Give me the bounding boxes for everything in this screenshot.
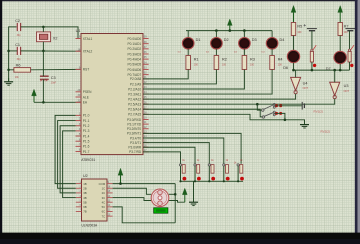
svg-text:P1.2: P1.2 xyxy=(83,124,90,128)
pin P2.3/A11 (24) xyxy=(143,93,149,95)
wire switch1 feed xyxy=(257,104,261,110)
node X2 bottom xyxy=(42,50,45,53)
svg-text:C1: C1 xyxy=(15,43,20,47)
photodiode D7 xyxy=(334,51,346,63)
button B3 xyxy=(208,164,215,182)
svg-text:100: 100 xyxy=(194,64,199,67)
potentiometer RV2 xyxy=(348,51,351,62)
pin 3B xyxy=(76,192,82,194)
svg-text:P0.4/AD4: P0.4/AD4 xyxy=(128,57,142,61)
pin 4C xyxy=(107,201,113,203)
svg-text:NOT: NOT xyxy=(303,86,309,90)
resistor R5 xyxy=(291,23,295,36)
svg-text:100: 100 xyxy=(250,64,255,67)
switch SW1 xyxy=(262,103,283,111)
wire RV2 to rail xyxy=(349,62,351,70)
svg-text:2C: 2C xyxy=(102,191,106,195)
svg-text:P3.7/RD: P3.7/RD xyxy=(129,150,142,154)
pin 1C xyxy=(107,187,113,189)
wire D1 to R1 xyxy=(187,49,189,55)
svg-text:100: 100 xyxy=(278,64,283,67)
button B5 xyxy=(237,164,244,182)
svg-text:P0.3/AD3: P0.3/AD3 xyxy=(128,52,142,56)
svg-text:P2.2/A10: P2.2/A10 xyxy=(128,87,141,91)
svg-text:P3.5/T1: P3.5/T1 xyxy=(130,141,141,145)
svg-text:C2: C2 xyxy=(15,19,20,23)
wire switch2 feed xyxy=(143,109,262,117)
wire X2 stems xyxy=(42,27,44,32)
pin P2.0/A8 (21) xyxy=(143,78,149,80)
svg-text:6C: 6C xyxy=(102,210,106,214)
wire C2 to crystal node xyxy=(21,26,44,28)
wire LED anode rail xyxy=(186,30,272,32)
svg-text:P0.6/AD6: P0.6/AD6 xyxy=(128,68,142,72)
pin P1.2 (3) xyxy=(76,125,82,127)
wire RV1 to rail xyxy=(311,62,313,70)
power +5V (COM) xyxy=(118,168,123,183)
pin P2.7/A15 (28) xyxy=(143,113,149,115)
svg-text:U2: U2 xyxy=(83,174,88,178)
svg-text:2B: 2B xyxy=(83,186,87,190)
pin 7B xyxy=(76,211,82,213)
svg-text:RST: RST xyxy=(83,68,89,72)
pin 5C xyxy=(107,206,113,208)
wire R2 to P2.1 xyxy=(143,70,216,84)
pin P0.6/AD6 (33) xyxy=(143,68,149,70)
svg-text:ULN2003A: ULN2003A xyxy=(82,223,98,227)
svg-text:30p: 30p xyxy=(17,34,22,37)
motor readout xyxy=(154,208,168,213)
svg-text:D3: D3 xyxy=(252,38,257,42)
pin P3.3/INT1 (13) xyxy=(143,132,149,134)
wire COM rail xyxy=(113,183,176,185)
pin P0.4/AD4 (35) xyxy=(143,58,149,60)
svg-text:R5: R5 xyxy=(297,24,302,28)
svg-text:P2.3/A11: P2.3/A11 xyxy=(128,92,141,96)
wire LED D1 stem xyxy=(187,31,189,38)
svg-text:D7: D7 xyxy=(326,67,331,71)
battery symbol (RV1 top) xyxy=(304,24,317,31)
svg-text:R3: R3 xyxy=(250,57,255,61)
svg-text:P1.7: P1.7 xyxy=(83,150,90,154)
wire top rail to XTAL1 xyxy=(43,27,81,39)
wire D6 to rail xyxy=(293,63,295,70)
capacitor C2 xyxy=(17,23,22,31)
svg-text:3B: 3B xyxy=(83,191,87,195)
pin P1.1 (2) xyxy=(76,120,82,122)
wire R1 to P2.0 xyxy=(143,70,188,79)
wire button feed xyxy=(143,147,195,164)
node RV2 terminal xyxy=(348,49,350,51)
svg-text:4B: 4B xyxy=(83,196,87,200)
svg-text:D6: D6 xyxy=(283,66,288,70)
svg-text:10uF: 10uF xyxy=(51,82,57,84)
wire LED D4 stem xyxy=(271,31,273,38)
potentiometer RV1 xyxy=(310,51,313,62)
svg-text:P1.4: P1.4 xyxy=(83,134,90,138)
LED D2 xyxy=(211,38,223,50)
pin XTAL1 (19) xyxy=(76,38,82,40)
wire D3 to R3 xyxy=(243,49,245,55)
svg-text:P3.1/TXD: P3.1/TXD xyxy=(127,122,142,126)
node EA junction xyxy=(42,101,45,104)
driver U2 xyxy=(76,174,113,227)
wire R7 to D7 xyxy=(339,36,341,52)
node C1-left junction xyxy=(7,50,10,53)
pin P3.2/INT0 (12) xyxy=(143,128,149,130)
pin 6C xyxy=(107,211,113,213)
pin P2.4/A12 (25) xyxy=(143,98,149,100)
button B4 xyxy=(223,164,230,182)
pin 2B xyxy=(76,187,82,189)
svg-text:C3: C3 xyxy=(51,76,56,80)
wire C3 bottom to EA node xyxy=(42,79,44,102)
pin P0.7/AD7 (32) xyxy=(143,74,149,76)
svg-text:P1.5: P1.5 xyxy=(83,140,90,144)
svg-text:X2: X2 xyxy=(53,37,58,41)
wire sensor rail xyxy=(294,69,350,71)
pin P1.6 (7) xyxy=(76,145,82,147)
svg-text:30p: 30p xyxy=(17,58,22,61)
pin XTAL2 (18) xyxy=(76,50,82,52)
pin P2.6/A14 (27) xyxy=(143,108,149,110)
node SW2-gnd junction xyxy=(284,119,287,122)
wire P1.1 to 2B xyxy=(58,121,76,189)
motor M1 xyxy=(151,189,169,207)
battery symbol (RV2 top) xyxy=(345,29,355,31)
svg-text:7C: 7C xyxy=(102,214,106,218)
pin P0.0/AD0 (39) xyxy=(143,38,149,40)
svg-text:PSEN: PSEN xyxy=(83,90,92,94)
wire R5 to D6 xyxy=(293,36,295,51)
LED D1 xyxy=(182,38,194,50)
resistor R3 xyxy=(242,56,247,70)
wire X2 bottom to C3 xyxy=(42,51,44,75)
pin P3.6/WR (16) xyxy=(143,146,149,148)
svg-text:P1.0: P1.0 xyxy=(83,114,90,118)
pin COM xyxy=(107,183,113,185)
pin P3.4/T0 (14) xyxy=(143,137,149,139)
wire button feed xyxy=(143,133,241,163)
wire R4 to P2.3 xyxy=(143,70,272,95)
pin P2.2/A10 (23) xyxy=(143,88,149,90)
wire button common rail xyxy=(181,180,244,182)
svg-text:AT89C51: AT89C51 xyxy=(81,158,95,162)
button B1 xyxy=(179,164,186,182)
wire motor right top xyxy=(169,193,175,195)
node RV1 terminal xyxy=(311,49,313,51)
pin P1.0 (1) xyxy=(76,114,82,116)
crystal X2 xyxy=(37,32,51,42)
pin P1.4 (5) xyxy=(76,135,82,137)
node X2 top xyxy=(42,26,45,29)
ground (switch node) xyxy=(300,120,309,128)
node switch1 tap xyxy=(256,103,259,106)
RV1 adjust dot xyxy=(313,64,316,67)
svg-text:COM: COM xyxy=(99,182,106,186)
pin P3.5/T1 (15) xyxy=(143,142,149,144)
wire U3 input xyxy=(334,70,336,82)
microcontroller U1 AT89C51 xyxy=(76,29,149,162)
pin 1B xyxy=(76,183,82,185)
wire U3 output to P2.5 xyxy=(143,99,335,105)
pin EA (31) xyxy=(76,101,82,103)
wire button feed xyxy=(143,138,224,164)
svg-text:D2: D2 xyxy=(224,38,229,42)
wire D2 to R2 xyxy=(215,49,217,55)
svg-text:U4: U4 xyxy=(303,81,308,85)
pin 2C xyxy=(107,192,113,194)
pin 7C xyxy=(107,215,113,217)
svg-text:100: 100 xyxy=(297,31,302,34)
node R6-left junction xyxy=(7,69,10,72)
svg-text:100: 100 xyxy=(222,64,227,67)
pin P3.0/RXD (10) xyxy=(143,119,149,121)
svg-text:ALE: ALE xyxy=(83,95,89,99)
pin 4B xyxy=(76,197,82,199)
svg-text:4C: 4C xyxy=(102,200,106,204)
pin P0.2/AD2 (37) xyxy=(143,48,149,50)
svg-text:1C: 1C xyxy=(102,186,106,190)
resistor R6 xyxy=(14,68,31,73)
power +5V (LED rail) xyxy=(227,19,232,31)
svg-text:P0.5/AD5: P0.5/AD5 xyxy=(128,63,142,67)
wire button feed xyxy=(143,143,209,164)
svg-text:P3.3/INT1: P3.3/INT1 xyxy=(127,132,142,136)
svg-text:P2.0/A8: P2.0/A8 xyxy=(130,77,142,81)
svg-text:P1.6: P1.6 xyxy=(83,145,90,149)
wire P1.3 to 4B xyxy=(63,131,76,198)
wire battery to RV1 xyxy=(311,31,313,50)
power +5V (R5) xyxy=(291,6,296,23)
svg-text:U3: U3 xyxy=(344,84,349,88)
resistor R4 xyxy=(270,56,275,70)
svg-text:6B: 6B xyxy=(83,205,87,209)
ground (left rail) xyxy=(4,78,13,85)
svg-text:P2.7/A15: P2.7/A15 xyxy=(128,113,141,117)
wire XTAL2 rail xyxy=(21,50,81,52)
border frame xyxy=(0,0,360,1)
wire U4 output to P2.4 xyxy=(143,94,296,99)
pin PSEN (29) xyxy=(76,91,82,93)
pin P1.5 (6) xyxy=(76,140,82,142)
pin ALE (30) xyxy=(76,96,82,98)
pin 3C xyxy=(107,197,113,199)
wire P2.7 to ground xyxy=(143,114,305,123)
svg-text:P0.0/AD0: P0.0/AD0 xyxy=(128,37,142,41)
svg-text:NOT: NOT xyxy=(344,89,350,93)
photodiode D6 xyxy=(287,50,299,62)
svg-text:XTAL1: XTAL1 xyxy=(83,37,93,41)
wire D7 to rail xyxy=(339,64,341,70)
wire 3C to motor xyxy=(113,198,152,201)
pin 6B xyxy=(76,206,82,208)
svg-text:P3.4/T0: P3.4/T0 xyxy=(130,136,141,140)
power +5V (EA) xyxy=(32,89,37,102)
power +5V (R7) xyxy=(338,6,343,23)
not-gate U3 xyxy=(330,82,340,98)
button B2 xyxy=(194,164,201,182)
svg-text:R4: R4 xyxy=(278,57,283,61)
power +5V (motor) xyxy=(182,188,187,202)
switch SW2 xyxy=(262,111,282,118)
svg-text:P0.2/AD2: P0.2/AD2 xyxy=(128,47,142,51)
wire motor right vertical xyxy=(174,184,176,223)
pin P1.3 (4) xyxy=(76,130,82,132)
svg-text:P2.6/A14: P2.6/A14 xyxy=(128,108,141,112)
svg-text:R7: R7 xyxy=(344,24,349,28)
wire left rail top node xyxy=(9,27,18,82)
pin P0.5/AD5 (34) xyxy=(143,63,149,65)
svg-text:D4: D4 xyxy=(280,38,285,42)
wire C1 left xyxy=(9,50,18,52)
wire 1C to motor xyxy=(113,188,152,194)
svg-text:P0.1/AD1: P0.1/AD1 xyxy=(128,42,142,46)
resistor R7 xyxy=(338,23,342,36)
svg-text:1B: 1B xyxy=(83,182,87,186)
capacitor C1 xyxy=(17,47,22,55)
resistor R2 xyxy=(214,56,219,70)
node rail junctions xyxy=(215,29,218,32)
svg-text:P3.6/WR: P3.6/WR xyxy=(128,146,141,150)
RV2 adjust dot xyxy=(350,64,353,67)
svg-text:RV2(2): RV2(2) xyxy=(321,130,330,134)
svg-text:P1.1: P1.1 xyxy=(83,119,90,123)
svg-text:P2.5/A13: P2.5/A13 xyxy=(128,103,141,107)
wire battery to RV2 xyxy=(349,31,351,50)
svg-text:R2: R2 xyxy=(222,57,227,61)
pin P0.1/AD1 (38) xyxy=(143,43,149,45)
wire motor right bottom xyxy=(169,201,185,203)
svg-text:5B: 5B xyxy=(83,200,87,204)
svg-text:P2.4/A12: P2.4/A12 xyxy=(128,97,141,101)
pin P0.3/AD3 (36) xyxy=(143,53,149,55)
LED D3 xyxy=(239,38,251,50)
svg-text:P3.0/RXD: P3.0/RXD xyxy=(127,118,142,122)
wire LED D2 stem xyxy=(215,31,217,38)
pin P2.1/A9 (22) xyxy=(143,83,149,85)
not-gate U4 xyxy=(291,77,301,93)
wire U4 input xyxy=(295,70,297,77)
wire LED D3 stem xyxy=(243,31,245,38)
svg-text:P3.2/INT0: P3.2/INT0 xyxy=(127,127,142,131)
svg-text:7B: 7B xyxy=(83,210,87,214)
svg-text:R1: R1 xyxy=(194,57,199,61)
LED D4 xyxy=(266,38,278,50)
wire button feed xyxy=(143,152,181,164)
wire D4 to R4 xyxy=(271,49,273,55)
wire P1.2 to 3B xyxy=(60,126,76,193)
svg-text:R6: R6 xyxy=(16,63,21,67)
svg-text:D1: D1 xyxy=(196,38,201,42)
svg-text:3C: 3C xyxy=(102,196,106,200)
wire P1.0 to 1B xyxy=(55,115,76,183)
capacitor C3 xyxy=(40,75,49,81)
wire EA rail xyxy=(34,101,81,103)
pin 5B xyxy=(76,201,82,203)
resistor R1 xyxy=(186,56,191,70)
pin P3.7/RD (17) xyxy=(143,151,149,153)
node COM junction xyxy=(119,182,122,185)
svg-text:XTAL2: XTAL2 xyxy=(83,50,93,54)
svg-text:U1: U1 xyxy=(76,29,81,33)
wire SW2 common xyxy=(275,113,285,119)
ground (button rail) xyxy=(189,181,198,205)
pin P2.5/A13 (26) xyxy=(143,103,149,105)
wire R3 to P2.2 xyxy=(143,70,244,90)
svg-text:P2.1/A9: P2.1/A9 xyxy=(130,82,142,86)
wire bottom loop to 5C xyxy=(113,207,176,223)
wire SW1 common xyxy=(275,105,302,107)
wire R6 to RST xyxy=(31,68,81,70)
pin P3.1/TXD (11) xyxy=(143,123,149,125)
battery symbol (switch node) xyxy=(302,102,304,110)
pin RST (9) xyxy=(76,68,82,70)
wire R6 left xyxy=(9,69,14,71)
pin P1.7 (8) xyxy=(76,151,82,153)
svg-text:P1.3: P1.3 xyxy=(83,129,90,133)
svg-text:5C: 5C xyxy=(102,205,106,209)
svg-text:RV1(2): RV1(2) xyxy=(314,110,323,114)
